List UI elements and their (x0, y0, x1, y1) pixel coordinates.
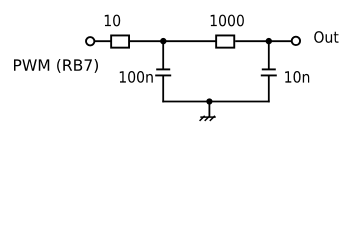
wire R2 to Out terminal (235, 40, 292, 42)
label 100n (120, 71, 153, 83)
node A junction (160, 38, 166, 44)
wire C2 to ground rail (268, 75, 270, 102)
resistor value 10 (111, 35, 129, 47)
wire ground rail (162, 101, 269, 103)
node B junction (266, 38, 272, 44)
label 10n (285, 71, 309, 83)
node ground junction (206, 98, 212, 104)
label 1000 (211, 15, 244, 27)
node Out net label (314, 31, 338, 43)
wire junction to ground symbol (208, 102, 210, 118)
wire R1 to R2 through node A (130, 40, 216, 42)
wire node A down to C1 (162, 41, 164, 69)
terminal input pin (86, 37, 94, 45)
label 10 (105, 15, 120, 27)
wire input terminal to R1 (94, 40, 111, 42)
wire node B down to C2 (268, 41, 270, 69)
resistor value 1000 (216, 35, 234, 47)
node PWM (RB7) input net label (14, 59, 98, 73)
wire C1 to ground rail (162, 75, 164, 102)
capacitor C1 value 100n (155, 69, 171, 75)
ground (200, 116, 216, 121)
capacitor C2 value 10n (261, 69, 277, 75)
terminal Out pin (292, 37, 300, 45)
